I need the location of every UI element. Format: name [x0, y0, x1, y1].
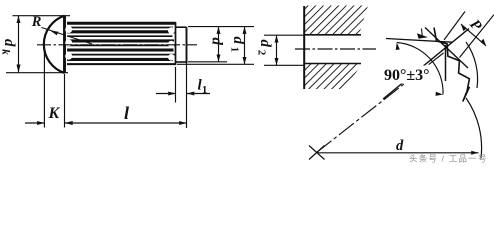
plain end bottom edge: [176, 61, 187, 63]
R leader arrowhead: [50, 31, 59, 36]
dimension dk line: [18, 16, 20, 73]
svg-text:90°±3°: 90°±3°: [384, 67, 430, 84]
K dimension line left part (arrow outside): [25, 122, 44, 124]
pin head flat right edge: [63, 16, 66, 73]
svg-text:R: R: [31, 14, 42, 30]
K left extension line (from dome extreme): [43, 51, 45, 128]
dimension dk top extension line: [13, 15, 71, 17]
knurl end vertical line: [175, 22, 177, 65]
svg-text:d: d: [208, 38, 224, 46]
svg-text:d: d: [257, 40, 273, 48]
svg-text:P: P: [466, 17, 485, 35]
dimension d2 line: [276, 35, 278, 65]
l1 left extension line: [175, 67, 177, 103]
knurl right end scallops: [168, 27, 175, 60]
d2 top extension line: [264, 34, 304, 36]
angle dimension arc: [397, 43, 443, 95]
tooth zigzag lower: [434, 28, 470, 102]
l1 dimension left part: [156, 93, 176, 95]
svg-text:d: d: [230, 37, 246, 45]
angle arc arrow top: [396, 43, 400, 51]
label l1: [198, 78, 208, 97]
d dimension line: [317, 152, 479, 154]
groove face line upper (NH): [386, 39, 452, 43]
svg-text:d: d: [1, 39, 17, 47]
groove face line L1: [425, 28, 468, 69]
svg-text:K: K: [48, 105, 61, 122]
svg-text:头条号 / 工品一号: 头条号 / 工品一号: [409, 154, 488, 164]
bottom hatched block: [305, 64, 362, 90]
pin end vertical edge (also l / l1 right extension): [186, 27, 188, 63]
hole bottom line: [304, 63, 361, 65]
knurled shank groove lines: [67, 23, 176, 64]
radial center line: [317, 51, 447, 153]
knurl left end scallops: [65, 25, 72, 63]
groove face line lower (arm A): [383, 29, 469, 99]
dk arrow bottom: [17, 65, 21, 73]
big circumference arc: [466, 98, 482, 158]
label 90 deg: [383, 66, 431, 84]
d2 bottom extension line: [264, 64, 304, 66]
hole center line: [295, 48, 376, 50]
svg-text:l: l: [124, 103, 129, 123]
l dimension line: [65, 122, 187, 124]
d bottom extension line: [188, 61, 227, 63]
d top extension line: [188, 26, 254, 28]
svg-text:1: 1: [202, 85, 207, 96]
dimension dk bottom extension line: [6, 72, 68, 74]
svg-text:1: 1: [228, 47, 240, 53]
pin head dome arc: [44, 16, 65, 73]
hole top line: [304, 34, 361, 36]
P dimension line: [461, 24, 486, 46]
label d1: [228, 37, 246, 53]
l1 dimension right part: [187, 93, 210, 95]
pin axis center line: [37, 44, 197, 46]
tick on NH: [422, 29, 423, 39]
P extension line 1: [444, 12, 465, 41]
label d2: [255, 40, 273, 56]
center cross mark: [309, 146, 325, 160]
head edge extension line for K / l: [64, 74, 66, 128]
hole face line: [303, 6, 305, 89]
dimension d1 line: [244, 27, 246, 65]
tooth face vertical line: [445, 45, 447, 81]
svg-text:d: d: [396, 138, 404, 154]
svg-text:2: 2: [255, 50, 267, 56]
top hatched block: [305, 6, 368, 35]
P extension line 2: [460, 15, 494, 58]
angle arc arrow bottom: [436, 92, 444, 96]
dimension d line: [218, 27, 220, 62]
plain end top edge: [176, 26, 187, 28]
svg-text:k: k: [0, 49, 11, 55]
wedge arrow on NH: [417, 33, 428, 38]
d1 bottom extension line: [177, 63, 254, 65]
dk arrow top: [17, 16, 21, 23]
circumference arc upper part: [466, 42, 478, 88]
label dk: [0, 39, 17, 55]
R leader line: [42, 28, 93, 45]
